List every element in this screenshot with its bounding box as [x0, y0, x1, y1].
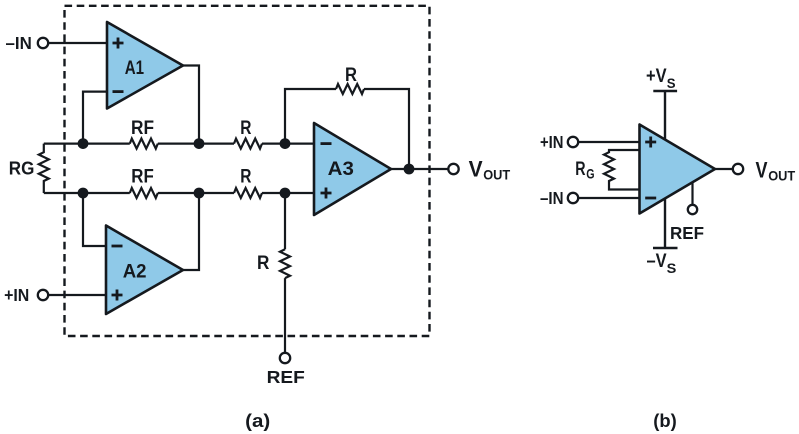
svg-text:–IN: –IN: [540, 188, 564, 208]
wire top row: [44, 143, 314, 145]
-VS supply rail bar: [653, 247, 678, 249]
svg-text:R: R: [240, 167, 251, 188]
op-amp A2: [106, 226, 183, 315]
resistor R (top, to A3 inverting input): [234, 139, 262, 149]
op-amp A3: [314, 123, 391, 215]
resistor RF (bottom): [130, 188, 158, 198]
svg-text:–V: –V: [647, 251, 667, 272]
svg-text:RF: RF: [131, 167, 154, 188]
svg-text:V: V: [469, 157, 483, 182]
svg-text:V: V: [756, 158, 768, 183]
wire A1 inverting input to node A1f: [83, 92, 107, 144]
resistor R (A3 feedback): [336, 84, 364, 94]
terminal VOUT: [448, 164, 458, 174]
wire +IN to op-amp (b): [578, 141, 639, 143]
node top row middle: [194, 138, 205, 149]
terminal +IN: [38, 290, 48, 300]
terminal -IN: [38, 38, 48, 48]
svg-text:R: R: [257, 253, 270, 274]
wire -IN to op-amp (b): [578, 197, 639, 199]
svg-text:R: R: [345, 65, 357, 86]
svg-text:REF: REF: [267, 367, 306, 387]
wire bottom row: [44, 192, 314, 194]
svg-text:RG: RG: [9, 159, 35, 179]
node bottom row right: [280, 188, 291, 199]
dashed boundary box (a): [65, 6, 430, 336]
resistor RG: [39, 144, 49, 193]
wire A3 output to VOUT terminal: [391, 168, 448, 170]
wire resistor to REF terminal: [284, 278, 286, 353]
terminal -IN (b): [568, 193, 578, 203]
terminal REF: [280, 353, 290, 363]
wire -IN to A1 noninverting input: [48, 42, 107, 44]
resistor RG (b) between gain pins: [604, 150, 640, 190]
svg-text:G: G: [586, 166, 594, 182]
node A3 output: [404, 164, 415, 175]
wire A2 output to node B2: [183, 193, 199, 270]
svg-text:S: S: [667, 260, 677, 276]
svg-text:–IN: –IN: [6, 33, 32, 53]
resistor R (to REF): [280, 249, 290, 278]
op-amp A1: [107, 22, 183, 109]
terminal REF (b): [688, 205, 697, 214]
resistor R (bottom, to A3 noninverting input): [234, 188, 262, 198]
svg-text:S: S: [667, 75, 676, 91]
wire A3 feedback left leg: [285, 89, 336, 144]
wire A3 feedback right leg to output node: [364, 89, 409, 169]
svg-text:+V: +V: [646, 66, 667, 87]
wire op-amp output to VOUT (b): [715, 168, 733, 170]
terminal +IN (b): [568, 137, 578, 147]
svg-text:OUT: OUT: [483, 168, 511, 183]
svg-text:(a): (a): [245, 410, 270, 431]
wire op-amp bottom to -VS: [664, 199, 666, 248]
node top row right: [280, 138, 291, 149]
svg-text:+IN: +IN: [4, 285, 29, 305]
svg-text:RF: RF: [131, 118, 154, 139]
svg-text:A1: A1: [125, 58, 145, 79]
node top row left: [78, 138, 89, 149]
svg-text:+IN: +IN: [540, 132, 564, 152]
+VS supply rail bar: [653, 90, 677, 92]
terminal VOUT (b): [733, 164, 743, 174]
svg-text:A2: A2: [123, 262, 147, 283]
node bottom row left: [78, 188, 89, 199]
svg-text:R: R: [240, 118, 251, 139]
node bottom row middle: [194, 188, 205, 199]
wire +VS to op-amp top: [664, 91, 666, 140]
wire REF pin (b): [691, 182, 693, 204]
wire A1 output to node B1: [183, 66, 199, 144]
svg-text:REF: REF: [670, 223, 704, 243]
svg-text:(b): (b): [653, 410, 677, 431]
svg-text:A3: A3: [328, 158, 354, 180]
svg-text:R: R: [575, 159, 585, 180]
wire +IN to A2 noninverting input: [48, 294, 106, 296]
wire A2 inverting input to node A2f: [83, 193, 106, 246]
op-amp U1 (b): [640, 125, 716, 214]
wire node to resistor R (REF): [284, 193, 286, 249]
resistor RF (top): [130, 139, 158, 149]
svg-text:OUT: OUT: [768, 169, 796, 184]
